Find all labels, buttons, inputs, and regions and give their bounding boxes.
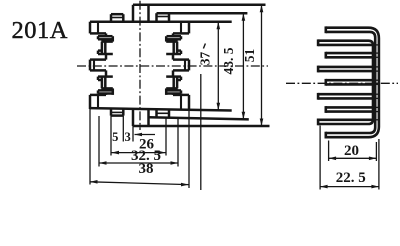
front view left fin bar 3 (short tip) — [98, 75, 113, 78]
side view fin 4 — [318, 66, 373, 69]
side view third contour (fin 2 top to fin 8 bottom) — [318, 41, 373, 124]
side view second contour (fin 1 bottom to fin 9 top) — [326, 32, 375, 133]
front view top base line / 37 top extension line — [90, 20, 232, 23]
front view left wall notch upper — [101, 40, 113, 43]
svg-text:38: 38 — [139, 161, 154, 177]
stray tick above 37 label — [203, 44, 205, 49]
extension line right 32.5 — [177, 117, 179, 166]
front view left wall notch lower — [101, 87, 113, 90]
svg-text:201A: 201A — [12, 17, 68, 44]
dimension 3 pointer arrow — [135, 134, 156, 136]
side view fin 6 — [318, 93, 373, 96]
front view bottom base line / 37 bottom extension line — [90, 108, 232, 110]
extension line left 32.5 — [98, 116, 100, 167]
front view right fin bar 4 — [167, 89, 182, 92]
side view fin 2 — [318, 44, 373, 47]
front view top right fin / 43.5 top extension line — [155, 13, 158, 22]
svg-text:22. 5: 22. 5 — [336, 170, 366, 186]
front view bottom tall center fin — [132, 109, 135, 126]
extension line 5-3 boundary — [122, 116, 124, 142]
dimension line 26 — [112, 152, 166, 154]
dimension line 43.5 vertical — [242, 13, 244, 119]
side view fin 7 — [326, 106, 373, 109]
svg-text:43. 5: 43. 5 — [221, 47, 236, 74]
front view bottom left fin (double tip) — [110, 109, 113, 116]
dimension line 32.5 — [99, 162, 178, 164]
extension line right 20 — [375, 142, 377, 161]
front view left middle tooth — [90, 58, 106, 61]
front view left wall segments — [105, 33, 108, 36]
extension line right 22.5 — [378, 139, 380, 190]
front view bottom right fin — [155, 109, 158, 117]
side view horizontal centerline — [286, 82, 398, 84]
extra vertical extension line right of front view — [200, 74, 202, 190]
side view fin 8 — [318, 119, 373, 122]
svg-text:3: 3 — [124, 130, 130, 144]
dimension line 22.5 — [320, 186, 379, 188]
front view top edge line / 51 top extension line — [133, 4, 266, 7]
dimension line 38 — [90, 182, 189, 185]
side view fin 1 — [324, 26, 327, 33]
front view right fin bar 2 (short tip) — [177, 49, 182, 52]
front view left fin bar 1 — [98, 35, 113, 38]
front view right wall notch upper — [166, 40, 178, 43]
extension line left 22.5 — [319, 126, 321, 190]
front view horizontal centerline — [77, 65, 268, 67]
side view outer contour with rounded corner (fin 1 top to fin 9 bottom) — [326, 28, 379, 138]
dimension line 37 vertical — [217, 22, 219, 111]
svg-text:5: 5 — [112, 130, 118, 144]
front view right fin bar 1 — [167, 35, 182, 38]
front view left bottom tooth — [90, 94, 106, 97]
front view left top tooth — [89, 22, 92, 34]
front view right fin bar 3 (short tip) — [166, 75, 181, 78]
extension line right 38 — [188, 109, 190, 188]
front view right middle tooth — [173, 58, 189, 61]
front view right wall segments — [172, 33, 175, 36]
svg-text:51: 51 — [242, 49, 257, 63]
front view top tall center fin — [132, 5, 135, 22]
front view right wall notch lower — [166, 87, 178, 90]
svg-text:20: 20 — [344, 143, 359, 159]
svg-text:37: 37 — [198, 52, 213, 66]
front view right top tooth — [188, 22, 191, 34]
dimension line 20 — [329, 157, 377, 159]
front view left fin bar 2 (short tip) — [98, 49, 103, 52]
side view fin 9 — [324, 132, 327, 139]
extension line 3 right boundary — [132, 126, 134, 142]
front view left fin bar 4 — [98, 89, 113, 92]
extension line right 26 — [165, 117, 167, 155]
front view vertical centerline — [139, 1, 141, 130]
front view top left fin (double tip) — [110, 14, 113, 22]
front view right bottom tooth — [173, 94, 189, 97]
extension line left 38 — [89, 109, 91, 185]
side view fin 3 — [326, 52, 373, 55]
side view fin 5 — [326, 79, 373, 82]
extension line left 20 — [328, 141, 330, 162]
dimension line 51 vertical — [261, 5, 263, 126]
43.5 bottom extension line / bottom right fin tip — [149, 117, 249, 119]
extension line left 26 — [110, 116, 112, 156]
front view bottom edge line / 51 bottom extension line — [133, 125, 270, 128]
